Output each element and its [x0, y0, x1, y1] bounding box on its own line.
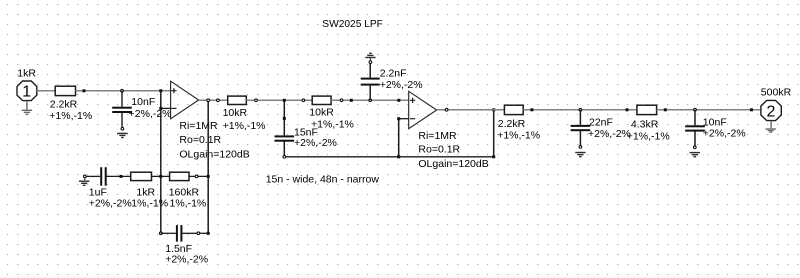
svg-text:+2%,-2%: +2%,-2% — [89, 197, 132, 209]
svg-text:2: 2 — [767, 104, 776, 121]
svg-text:+2%,-2%: +2%,-2% — [588, 128, 631, 140]
svg-text:+1%,-1%: +1%,-1% — [49, 110, 92, 122]
svg-text:1%,-1%: 1%,-1% — [131, 197, 168, 209]
svg-text:1: 1 — [22, 84, 31, 101]
svg-text:Ri=1MR: Ri=1MR — [179, 120, 218, 132]
svg-text:4.3kR: 4.3kR — [631, 119, 659, 131]
svg-text:Ri=1MR: Ri=1MR — [418, 130, 457, 142]
svg-text:10kR: 10kR — [309, 107, 334, 119]
svg-text:+2%,-2%: +2%,-2% — [129, 108, 172, 120]
svg-text:Ro=0.1R: Ro=0.1R — [418, 144, 460, 156]
svg-text:22nF: 22nF — [589, 116, 613, 128]
svg-text:+1%,-1%: +1%,-1% — [627, 130, 670, 142]
svg-text:+2%,-2%: +2%,-2% — [294, 137, 337, 149]
svg-text:1kR: 1kR — [17, 68, 36, 80]
svg-text:500kR: 500kR — [761, 87, 792, 99]
svg-text:+2%,-2%: +2%,-2% — [380, 79, 423, 91]
svg-text:+1%,-1%: +1%,-1% — [497, 129, 540, 141]
svg-text:Ro=0.1R: Ro=0.1R — [179, 134, 221, 146]
svg-text:+2%,-2%: +2%,-2% — [703, 128, 746, 140]
svg-text:OLgain=120dB: OLgain=120dB — [418, 158, 488, 170]
svg-text:1%,-1%: 1%,-1% — [170, 197, 207, 209]
svg-text:10kR: 10kR — [223, 107, 248, 119]
svg-text:15n - wide, 48n - narrow: 15n - wide, 48n - narrow — [266, 174, 380, 186]
svg-text:+1%,-1%: +1%,-1% — [223, 120, 266, 132]
svg-text:+2%,-2%: +2%,-2% — [165, 254, 208, 266]
svg-text:2.2kR: 2.2kR — [498, 118, 526, 130]
svg-text:OLgain=120dB: OLgain=120dB — [179, 149, 249, 161]
svg-text:2.2kR: 2.2kR — [50, 98, 78, 110]
svg-text:SW2025 LPF: SW2025 LPF — [322, 19, 383, 30]
svg-text:2.2nF: 2.2nF — [380, 67, 407, 79]
svg-text:10nF: 10nF — [131, 96, 155, 108]
svg-text:10nF: 10nF — [703, 116, 727, 128]
